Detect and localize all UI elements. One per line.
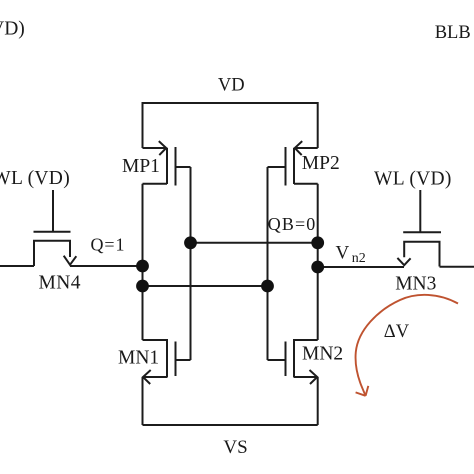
svg-text:n2: n2 xyxy=(352,251,366,266)
svg-text:Q=1: Q=1 xyxy=(91,234,126,254)
node junction dot right gate rail xyxy=(261,280,274,293)
svg-text:MN3: MN3 xyxy=(395,274,436,295)
svg-text:WL (VD): WL (VD) xyxy=(374,169,452,190)
wire node Vn2 to MN3 xyxy=(318,266,404,268)
wire left rail mid xyxy=(142,184,144,340)
nmos MN3 access transistor xyxy=(397,190,441,267)
wire left rail upper xyxy=(142,102,144,148)
wire left gate rail xyxy=(190,167,192,360)
node junction dot left gate rail xyxy=(184,236,197,249)
svg-text:MP1: MP1 xyxy=(122,156,160,177)
pmos MP1 xyxy=(143,141,191,185)
wire right rail mid xyxy=(317,184,319,340)
node Q junction dot upper xyxy=(136,260,149,273)
wire BL to MN4 xyxy=(0,265,34,267)
nmos MN1 xyxy=(143,339,191,384)
svg-text:VD: VD xyxy=(218,76,245,96)
wire right rail lower xyxy=(317,377,319,425)
nmos MN2 xyxy=(268,339,318,384)
svg-text:BL (VD): BL (VD) xyxy=(0,18,25,39)
svg-text:MN2: MN2 xyxy=(302,343,343,364)
svg-text:ΔV: ΔV xyxy=(384,322,410,342)
node QB junction dot upper xyxy=(311,236,324,249)
wire VS bottom rail xyxy=(143,424,318,426)
nmos MN4 access transistor xyxy=(34,190,77,266)
svg-text:BLB: BLB xyxy=(435,23,471,43)
delta-V current arrow xyxy=(356,295,458,396)
wire cross-couple lower xyxy=(143,285,268,287)
wire left rail lower xyxy=(142,377,144,425)
svg-text:MN4: MN4 xyxy=(39,273,81,294)
wire MN3 to BLB xyxy=(440,266,474,268)
wire cross-couple upper xyxy=(191,242,318,244)
svg-text:QB=0: QB=0 xyxy=(268,214,317,234)
wire right rail upper xyxy=(317,102,319,148)
svg-text:WL (VD): WL (VD) xyxy=(0,168,70,189)
wire VD top rail xyxy=(143,102,318,104)
svg-text:MN1: MN1 xyxy=(118,348,159,369)
node QB junction dot lower xyxy=(311,261,324,274)
wire MN4 to node Q xyxy=(70,265,143,267)
svg-text:MP2: MP2 xyxy=(302,153,340,174)
svg-text:VS: VS xyxy=(223,437,247,458)
pmos MP2 xyxy=(268,141,318,185)
svg-text:V: V xyxy=(336,242,350,263)
node Q junction dot lower xyxy=(136,280,149,293)
wire right gate rail xyxy=(267,167,269,360)
